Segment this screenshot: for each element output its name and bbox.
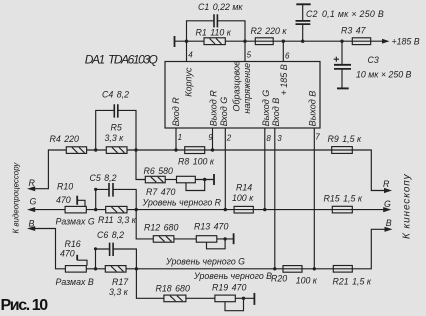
node junction R17-right [135, 267, 138, 270]
resistor R21 [314, 266, 352, 273]
wire R11 to pin2 [127, 209, 234, 211]
svg-text:Образцовое: Образцовое [232, 61, 242, 112]
resistor R5 [106, 147, 127, 154]
svg-text:Уровень черного G: Уровень черного G [165, 256, 245, 266]
wire B black-level drop [136, 269, 164, 299]
resistor R8 feedback [185, 147, 213, 154]
capacitor C5 [109, 183, 113, 197]
wire pin 8 drop [264, 128, 266, 210]
wire R12 to R13 [174, 238, 196, 240]
capacitor C3 polarized [334, 41, 351, 88]
svg-text:R6 580: R6 580 [144, 166, 174, 176]
wire +185V top rail [175, 40, 385, 42]
wire R5 to pin1 [127, 149, 185, 151]
node arrow B left [27, 226, 35, 231]
svg-text:R21 1,5 к: R21 1,5 к [333, 276, 372, 286]
svg-text:С3: С3 [368, 55, 379, 65]
svg-text:Вход R: Вход R [171, 97, 181, 127]
svg-text:5: 5 [247, 51, 252, 60]
op-amp U1 DA1 TDA6103Q body [165, 62, 320, 129]
capacitor C6 [110, 243, 114, 256]
node junction pin9 [211, 148, 214, 151]
svg-text:10 мк × 250 В: 10 мк × 250 В [356, 70, 412, 80]
resistor R4 [66, 147, 86, 154]
wire R13 to node [217, 238, 233, 240]
wire R17 to pin3 [126, 268, 283, 270]
svg-text:К видеопроцессору: К видеопроцессору [11, 162, 20, 234]
resistor R17 [105, 266, 126, 273]
wire R7 wiper loop [186, 181, 205, 191]
node junction C2 [301, 40, 304, 43]
svg-text:Вход В: Вход В [271, 98, 281, 127]
wire R input from video processor [35, 150, 67, 189]
svg-text:R12 680: R12 680 [144, 222, 178, 232]
node junction R16-R17 C6 [94, 267, 97, 270]
resistor R1 [204, 38, 225, 45]
svg-text:Рис. 10: Рис. 10 [1, 297, 49, 314]
node junction C1-left pin4 [185, 40, 188, 43]
resistor R11 [106, 206, 127, 213]
svg-text:R14: R14 [236, 182, 252, 192]
node junction pin3 [273, 267, 276, 270]
wire R4 to R5 [87, 149, 107, 151]
svg-text:R16: R16 [65, 239, 81, 249]
svg-text:100 к: 100 к [296, 275, 318, 285]
node terminal bar above C2 [296, 3, 310, 5]
wire R19 wiper loop [225, 300, 244, 311]
svg-text:R4 220: R4 220 [50, 134, 80, 144]
svg-text:R17: R17 [112, 277, 129, 287]
node arrow G right [383, 207, 391, 212]
node junction R4-R5 C4 [94, 148, 97, 151]
svg-text:TDA6103Q: TDA6103Q [108, 53, 158, 67]
capacitor C2 [296, 5, 311, 41]
node junction R7 tap [203, 178, 206, 181]
resistor R6 [145, 176, 165, 183]
svg-text:R2 220 к: R2 220 к [251, 26, 288, 36]
svg-text:R9 1,5 к: R9 1,5 к [328, 134, 362, 144]
svg-text:R15 1,5 к: R15 1,5 к [324, 193, 363, 203]
resistor R15 [332, 206, 352, 213]
wire pin5 drop [244, 41, 246, 61]
resistor R16 trimmer [65, 266, 86, 273]
svg-text:C1 0,22 мк: C1 0,22 мк [198, 2, 243, 12]
wire G rail pin8 to R15 [265, 209, 333, 211]
node junction C6 corner [94, 247, 97, 250]
wire R output rail pin9 to R9 [213, 149, 332, 151]
wire C6 branch [96, 249, 137, 269]
node junction R11-right [135, 208, 138, 211]
svg-text:R: R [383, 179, 390, 189]
wire R16 to R17 [86, 268, 105, 270]
node junction pin6 [282, 40, 285, 43]
svg-text:Размах В: Размах В [56, 277, 94, 287]
wire pin6 drop [282, 41, 284, 61]
wire G black-level drop [136, 210, 153, 239]
svg-text:Выход В: Выход В [308, 91, 318, 127]
wire pin 7 drop [313, 128, 315, 269]
capacitor C1 [214, 14, 217, 27]
node arrow B right [385, 227, 393, 232]
node junction pin1 [174, 148, 177, 151]
wire R16 wiper [77, 260, 87, 265]
resistor R3 [352, 38, 370, 45]
svg-text:Уровень черного R: Уровень черного R [142, 197, 222, 207]
wire pin 2 drop [224, 128, 226, 210]
wire R7 to node [195, 179, 213, 181]
wire pin 9 stub [212, 128, 214, 150]
resistor R19 trimmer [215, 295, 235, 302]
svg-text:R11 3,3 к: R11 3,3 к [98, 215, 137, 225]
wire +185V output arrow [378, 39, 390, 44]
wire C5 branch [96, 189, 137, 209]
node junction R5-right [134, 148, 137, 151]
svg-text:напряжение: напряжение [242, 63, 252, 114]
svg-text:Уровень черного В: Уровень черного В [193, 271, 272, 281]
node arrow R left [27, 186, 35, 191]
svg-text:R20: R20 [271, 274, 287, 284]
wire R10 wiper [77, 200, 85, 206]
wire R18 to R19 [186, 297, 215, 299]
ground bar below C3 [337, 87, 349, 89]
wire R21 to B output arrow [352, 229, 385, 268]
svg-text:R19 470: R19 470 [212, 282, 246, 292]
svg-text:Выход R: Выход R [209, 90, 219, 127]
capacitor C4 [114, 104, 118, 117]
resistor R12 [153, 236, 174, 243]
node terminal bar R19 tap [253, 293, 255, 305]
svg-text:7: 7 [315, 132, 320, 141]
svg-text:100 к: 100 к [232, 193, 254, 203]
node arrow R right [384, 188, 392, 193]
wire R9 to R output arrow [352, 150, 385, 191]
svg-text:В: В [29, 218, 35, 228]
wire pin4 drop [186, 41, 188, 61]
wire G input from video processor [35, 209, 66, 211]
node junction C3 [340, 40, 343, 43]
svg-text:R18 680: R18 680 [156, 283, 190, 293]
resistor R9 [332, 147, 353, 154]
svg-text:4: 4 [188, 51, 193, 60]
svg-text:C2 0,1 мк × 250 В: C2 0,1 мк × 250 В [306, 9, 384, 19]
node terminal bar R16 wiper [76, 255, 78, 260]
wire pin 1 stub [175, 128, 177, 150]
svg-text:Размах G: Размах G [56, 216, 95, 226]
svg-text:R1 110 к: R1 110 к [196, 28, 232, 38]
resistor R14 feedback [234, 206, 265, 213]
wire C1 branch [187, 21, 246, 41]
wire B input from video processor [35, 229, 66, 269]
svg-text:Выход G: Выход G [261, 90, 271, 127]
svg-text:6: 6 [285, 51, 290, 60]
svg-text:C5 8,2: C5 8,2 [90, 173, 117, 183]
wire R10 to R11 [86, 209, 105, 211]
svg-text:R7 470: R7 470 [146, 187, 176, 197]
svg-text:R3 47: R3 47 [341, 26, 367, 36]
svg-text:К кинескопу: К кинескопу [401, 173, 412, 239]
svg-text:3,3 к: 3,3 к [109, 287, 129, 297]
svg-text:+185 В: +185 В [392, 36, 420, 46]
wire R15 to G output arrow [352, 209, 384, 211]
svg-text:R10: R10 [57, 181, 73, 191]
svg-text:R13 470: R13 470 [194, 222, 228, 232]
node junction R10-R11 C5 [94, 208, 97, 211]
svg-text:В: В [386, 218, 392, 228]
node terminal bar R13 tap [233, 233, 235, 244]
wire R13 wiper loop [207, 240, 226, 248]
resistor R13 trimmer [196, 236, 217, 243]
svg-text:3,3 к: 3,3 к [105, 133, 125, 143]
svg-text:C4 8,2: C4 8,2 [102, 89, 129, 99]
svg-text:Корпус: Корпус [183, 67, 193, 97]
svg-text:C6 8,2: C6 8,2 [97, 230, 124, 240]
svg-text:8: 8 [266, 134, 271, 143]
node junction C1-right pin5 [243, 40, 246, 43]
svg-text:3: 3 [277, 134, 282, 143]
svg-text:R8 100 к: R8 100 к [178, 156, 215, 166]
svg-text:R5: R5 [111, 122, 122, 132]
node terminal bar R10 wiper [76, 196, 78, 205]
node junction R13 tap [223, 237, 226, 240]
wire R19 to node [235, 297, 254, 299]
svg-text:470: 470 [60, 248, 75, 258]
svg-text:G: G [384, 199, 391, 209]
resistor R20 feedback [283, 266, 314, 273]
svg-text:470: 470 [56, 195, 71, 205]
node junction pin7 [313, 267, 316, 270]
wire pin 3 drop [274, 128, 276, 269]
resistor R10 trimmer [65, 206, 86, 213]
wire R black-level drop [136, 150, 145, 180]
node arrow G left [27, 207, 35, 212]
svg-text:2: 2 [226, 133, 232, 142]
wire R6 to R7 [165, 179, 176, 181]
node junction R19 tap [242, 297, 245, 300]
resistor R7 trimmer [177, 176, 196, 183]
svg-text:1: 1 [178, 133, 182, 142]
node junction C5 corner [94, 188, 97, 191]
node junction pin8 [263, 208, 266, 211]
node terminal bar R7 tap [213, 174, 215, 185]
svg-text:DA1: DA1 [85, 53, 105, 67]
node junction pin2 [224, 208, 227, 211]
svg-text:+ 185 В: + 185 В [279, 64, 289, 95]
resistor R18 [164, 295, 186, 302]
svg-text:R: R [29, 178, 36, 188]
svg-text:Вход G: Вход G [219, 97, 229, 127]
node terminal bar left of R1 [174, 36, 176, 47]
wire C4 branch [96, 110, 136, 150]
svg-text:G: G [30, 197, 37, 207]
resistor R2 [255, 38, 273, 45]
